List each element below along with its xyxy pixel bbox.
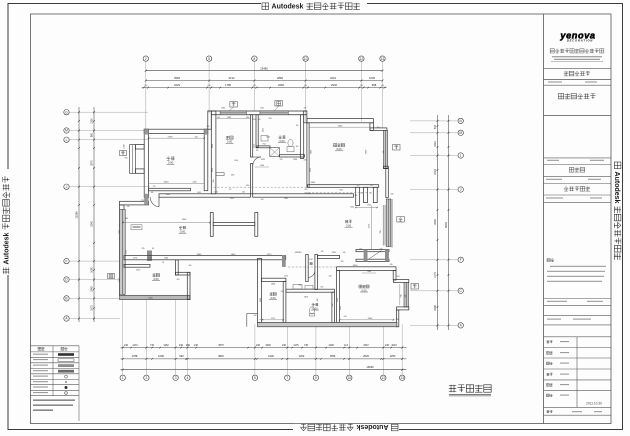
svg-text:3569: 3569 [174,76,180,80]
svg-text:240: 240 [242,192,245,194]
svg-text:1212: 1212 [434,141,437,147]
svg-text:Autodesk: Autodesk [356,423,388,430]
study left wall [211,111,216,194]
project rows [544,157,612,159]
svg-text:3229: 3229 [174,83,180,87]
svg-text:1200: 1200 [293,159,297,161]
svg-text:490: 490 [177,279,180,281]
svg-text:3555: 3555 [310,168,312,172]
watermark top: Autodesk educational [261,3,367,11]
svg-text:240: 240 [144,85,147,87]
watermark left rotated [3,169,11,275]
svg-text:2367: 2367 [363,344,369,347]
kitchen step wall [176,272,191,275]
svg-text:240: 240 [281,291,284,293]
living room opening columns (H) [210,213,213,237]
svg-text:240: 240 [194,344,199,347]
bedroom right cavity wall [204,129,208,191]
svg-text:1036: 1036 [369,76,375,80]
svg-text:240: 240 [355,195,358,197]
svg-text:1250: 1250 [390,354,396,358]
svg-text:240: 240 [304,85,307,87]
left grid bubbles and dimensions [64,110,69,115]
svg-text:1180: 1180 [231,174,235,176]
svg-text:L: L [66,138,68,142]
svg-text:1410: 1410 [230,198,234,200]
svg-text:540: 540 [380,249,383,251]
svg-text:2400: 2400 [164,182,170,184]
svg-text:1942: 1942 [90,286,93,292]
svg-text:1046: 1046 [263,128,265,132]
bottom long wall [258,322,397,326]
kitchen right wall lower [187,272,190,299]
bathroom left wall [256,115,258,148]
bedroom top-left: left wall [144,129,148,197]
kitchen column [147,251,152,262]
svg-text:L: L [460,154,462,158]
bedroom top wall [144,129,208,133]
svg-text:1046: 1046 [337,298,339,302]
watermark bottom rotated [293,423,399,431]
svg-text:825: 825 [321,287,324,289]
svg-text:175: 175 [229,189,232,191]
curtain label [131,225,142,230]
right grid bubbles and dimensions [458,118,463,123]
svg-text:742: 742 [401,294,403,297]
fixtures above [293,285,302,290]
svg-text:240: 240 [341,261,344,263]
svg-text:1575: 1575 [90,305,93,311]
svg-text:240: 240 [396,319,399,321]
svg-text:240: 240 [282,344,287,347]
svg-text:16060: 16060 [366,365,374,369]
svg-text:240: 240 [381,85,384,87]
drawing title 原始平面图 [449,388,456,390]
shower box [270,148,280,157]
section line [544,67,612,69]
svg-text:940: 940 [405,295,407,298]
below window wall [384,166,389,168]
svg-text:715: 715 [148,258,151,260]
svg-text:860: 860 [90,132,93,137]
bedroom bottom wall [149,188,191,191]
svg-text:1600: 1600 [265,344,271,347]
svg-text:3132: 3132 [229,76,235,80]
svg-text:1123: 1123 [284,276,288,278]
svg-text:1940: 1940 [268,354,274,358]
svg-text:1: 1 [122,376,124,380]
svg-text:1187: 1187 [309,259,313,261]
svg-text:240: 240 [360,85,363,87]
svg-text:690: 690 [179,354,184,358]
svg-text:Autodesk: Autodesk [4,232,11,264]
svg-text:3231: 3231 [330,76,336,80]
svg-text:2882: 2882 [277,76,283,80]
svg-text:1556: 1556 [330,354,336,358]
svg-text:2: 2 [145,57,147,61]
bay window left [130,145,136,174]
svg-text:750: 750 [262,144,265,146]
svg-text:998: 998 [372,83,377,87]
svg-text:1080: 1080 [90,267,93,273]
svg-text:1903: 1903 [311,150,313,154]
svg-text:240: 240 [343,252,346,254]
svg-text:140: 140 [151,192,154,194]
svg-text:590: 590 [246,117,249,119]
svg-text:2940: 2940 [331,83,337,87]
svg-text:240: 240 [329,276,332,278]
corner columns [144,129,148,134]
jog wall [304,111,307,123]
svg-text:240: 240 [391,194,394,196]
svg-text:2190: 2190 [168,136,174,138]
window tags top [230,102,238,108]
svg-text:1175: 1175 [293,344,299,347]
svg-text:765: 765 [256,150,259,152]
toilet [309,307,314,314]
hallway door [307,271,309,278]
entry niche walls [356,187,360,205]
svg-text:1080: 1080 [119,230,121,234]
svg-text:3570: 3570 [90,160,93,166]
svg-text:90: 90 [152,248,154,250]
svg-text:2342: 2342 [90,221,93,227]
svg-text:12: 12 [382,376,386,380]
svg-text:3815: 3815 [218,354,224,358]
svg-text:1100: 1100 [90,118,93,124]
svg-text:715: 715 [150,344,155,347]
svg-text:3030: 3030 [260,298,262,302]
study door arc [253,156,261,158]
svg-text:7060: 7060 [284,198,288,200]
long lower corridor wall [124,256,286,260]
svg-text:140: 140 [217,117,220,119]
svg-text:5: 5 [208,57,210,61]
master top wall [307,119,374,123]
svg-text:750: 750 [377,127,380,129]
room1 top wall [262,278,286,281]
svg-text:1352: 1352 [261,159,265,161]
bedroom interior dim 2190 [149,137,205,139]
top grid bubbles and dimensions [143,56,148,61]
svg-text:1870: 1870 [304,297,308,299]
svg-text:1788: 1788 [132,354,138,358]
svg-text:1773: 1773 [434,272,437,278]
svg-text:12: 12 [360,57,364,61]
svg-text:175: 175 [153,186,156,188]
svg-text:1200: 1200 [124,144,126,148]
svg-text:1438: 1438 [328,344,334,347]
svg-text:1580: 1580 [164,258,168,260]
svg-text:600: 600 [299,285,302,287]
svg-text:825: 825 [305,189,308,191]
bedroom door leaf and arc [158,197,160,207]
dashed lines [214,186,308,188]
legend notes [33,400,75,401]
svg-text:1780: 1780 [225,83,231,87]
svg-text:240: 240 [385,344,390,347]
svg-text:700: 700 [296,125,299,127]
svg-text:1024: 1024 [434,169,437,175]
svg-text:2342: 2342 [212,168,214,172]
svg-text:1040: 1040 [367,205,371,207]
svg-text:240: 240 [280,159,283,161]
svg-text:13480: 13480 [260,66,268,70]
svg-text:F: F [460,258,462,262]
svg-text:240: 240 [207,126,210,128]
svg-text:515: 515 [434,124,437,129]
svg-text:2529: 2529 [363,354,369,358]
study right wall [251,115,253,157]
room2 top wall [286,289,335,292]
svg-text:1942: 1942 [119,278,121,282]
svg-text:240: 240 [258,119,261,121]
svg-text:9634: 9634 [444,222,448,228]
company name [550,49,554,53]
svg-text:240: 240 [253,85,256,87]
svg-text:4: 4 [187,376,189,380]
svg-text:730: 730 [369,193,372,195]
svg-text:9: 9 [315,376,317,380]
hallway walls [306,255,309,282]
svg-text:1170: 1170 [133,258,137,260]
svg-text:6: 6 [254,376,256,380]
svg-text:12280: 12280 [74,211,78,219]
room1 right wall [283,282,286,323]
svg-text:1562: 1562 [260,108,264,110]
svg-text:940: 940 [332,304,334,307]
svg-text:240: 240 [344,316,347,318]
svg-text:240: 240 [124,344,129,347]
svg-text:3555: 3555 [254,144,256,148]
svg-text:700: 700 [268,118,271,120]
svg-text:150: 150 [213,180,215,183]
svg-text:1690: 1690 [158,354,164,358]
master corner step [370,123,374,131]
room2 right wall [332,292,335,322]
svg-text:1521: 1521 [126,250,128,254]
study closet [216,173,224,176]
svg-text:3292: 3292 [434,219,437,225]
bathroom right wall [301,115,304,159]
svg-text:3: 3 [175,376,177,380]
kitchen bottom wall (shaded) [120,295,190,299]
bathroom bottom walls [256,146,270,148]
svg-text:1046: 1046 [266,137,270,139]
watermark right rotated [613,161,621,267]
svg-text:DECORATION: DECORATION [567,38,593,42]
svg-text:140: 140 [195,136,198,138]
kitchen right wall upper [176,260,179,275]
svg-text:10: 10 [348,376,352,380]
svg-text:B: B [65,297,67,301]
design center 精品设计中心 [558,94,563,99]
bathroom fixtures [261,136,268,142]
svg-text:240: 240 [304,160,307,162]
svg-text:140: 140 [359,249,362,251]
svg-text:1450: 1450 [246,185,250,187]
svg-text:240: 240 [179,344,184,347]
svg-text:325: 325 [296,146,299,148]
svg-text:F: F [66,259,68,263]
svg-text:730: 730 [370,185,373,187]
room3 right wall upper [393,270,396,280]
entry threshold / door [356,250,389,252]
svg-text:1585: 1585 [227,117,231,119]
branch name 天津分公司 [564,71,569,73]
corridor wall upper [159,194,251,197]
svg-text:1686: 1686 [221,108,225,110]
kitchen door wall [124,264,150,267]
svg-text:1043: 1043 [391,344,397,347]
svg-text:M: M [65,129,68,133]
left exterior wall with kitchen window [120,205,124,296]
svg-text:3575: 3575 [218,344,224,347]
svg-text:2660: 2660 [278,83,284,87]
svg-text:8: 8 [254,57,256,61]
room3 window jog [393,280,408,283]
kitchen window tag [108,274,115,279]
svg-text:1046: 1046 [340,306,342,310]
svg-text:140: 140 [321,251,324,253]
svg-text:2: 2 [146,376,148,380]
svg-text:380: 380 [125,218,128,220]
top exterior wall with windows [208,110,307,112]
master window right [384,130,388,168]
svg-text:745: 745 [304,344,309,347]
svg-text:3555: 3555 [212,144,214,148]
svg-text:7060: 7060 [260,165,264,167]
master left wall [307,123,309,188]
step-out wall left [120,201,149,205]
bottom grid bubbles and dimensions [120,375,125,380]
address lines [552,56,602,57]
duct jog wall [208,111,212,129]
room3 top wall [337,267,396,271]
svg-text:13: 13 [400,376,404,380]
svg-text:1435: 1435 [197,192,201,194]
svg-text:Autodesk: Autodesk [272,4,304,11]
svg-text:490: 490 [189,265,192,267]
svg-text:235: 235 [142,248,145,250]
notes block [547,259,550,262]
svg-text:240: 240 [254,315,257,317]
signature table [544,336,612,338]
svg-text:240: 240 [253,119,256,121]
svg-text:1262: 1262 [299,354,305,358]
svg-text:M: M [459,131,462,135]
master bottom wall [308,185,379,188]
svg-text:240: 240 [256,344,261,347]
title block left edge [543,14,545,424]
svg-text:215: 215 [357,185,360,187]
corridor wall right of hallway [317,255,339,258]
entry bay window right [382,205,384,246]
svg-text:240: 240 [390,264,393,266]
svg-text:1046: 1046 [350,207,354,209]
svg-text:7060: 7060 [367,271,371,273]
svg-text:Autodesk: Autodesk [613,172,620,204]
room1 left wall [258,258,262,322]
svg-text:1046: 1046 [234,160,238,162]
svg-text:240: 240 [208,85,211,87]
svg-text:780: 780 [380,230,382,233]
svg-text:1452: 1452 [163,344,169,347]
svg-text:2011.10.30: 2011.10.30 [586,401,602,405]
svg-text:705: 705 [124,158,127,160]
svg-text:1170: 1170 [132,344,138,347]
bedroom dim 2400 [149,183,205,185]
legend table [31,345,80,347]
svg-text:1402: 1402 [214,192,218,194]
svg-text:240: 240 [295,252,298,254]
svg-text:10: 10 [304,57,308,61]
svg-text:240: 240 [127,206,130,208]
svg-text:90: 90 [162,262,164,264]
svg-text:940: 940 [317,299,319,302]
svg-text:1546: 1546 [434,305,437,311]
svg-text:450: 450 [186,344,191,347]
svg-text:243: 243 [397,276,400,278]
svg-text:240: 240 [304,108,307,110]
svg-text:1840: 1840 [271,284,275,286]
svg-text:7060: 7060 [339,190,343,192]
svg-text:1435: 1435 [193,182,197,184]
svg-text:13: 13 [381,57,385,61]
svg-text:240: 240 [261,199,264,201]
bay window tag [120,151,127,156]
svg-text:114: 114 [344,344,348,347]
svg-text:7: 7 [286,376,288,380]
room3 left wall [337,270,340,322]
svg-text:240: 240 [383,151,385,154]
